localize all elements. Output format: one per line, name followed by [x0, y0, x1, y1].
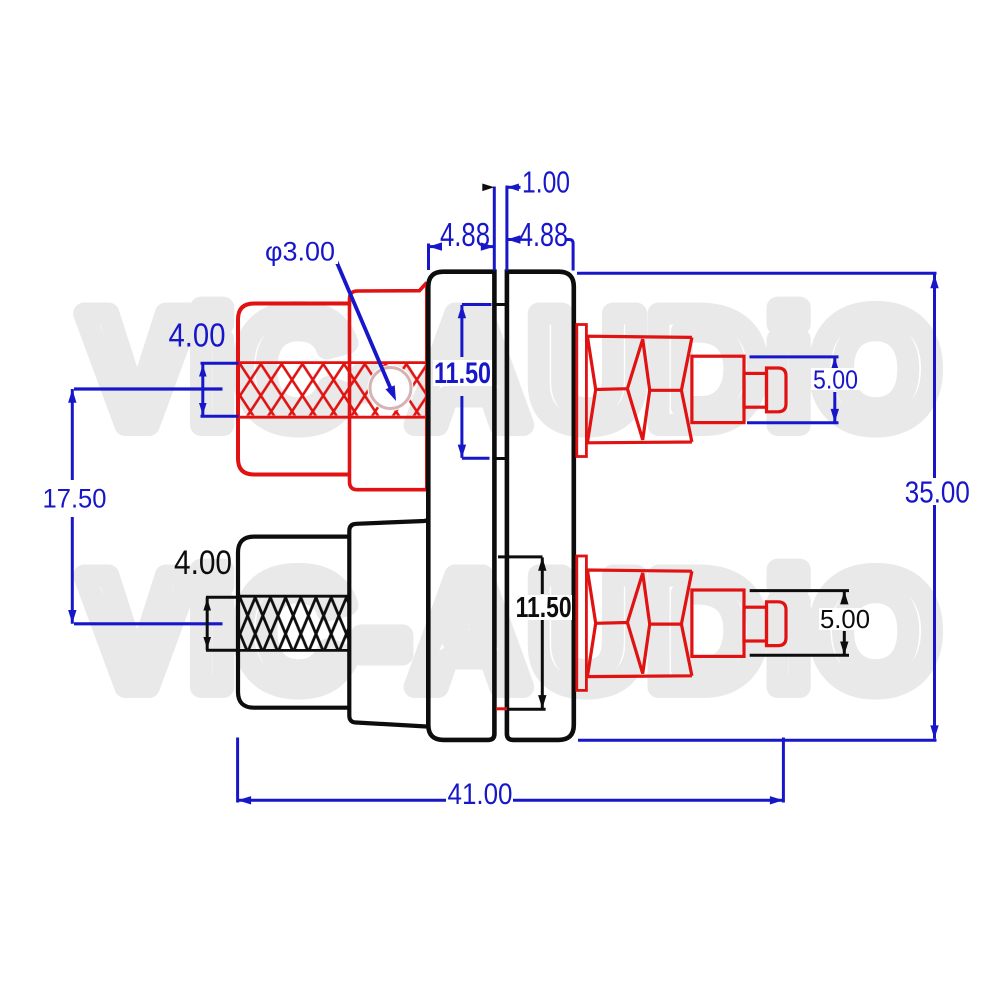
dim 11.50 top dim line — [460, 305, 463, 357]
dim 4.00 top ext lines — [201, 362, 239, 365]
stud shaft cylinder — [692, 356, 744, 422]
svg-text:11.50: 11.50 — [434, 357, 491, 390]
dim 35.00 top ext line — [577, 272, 937, 275]
red stud edge in plate gap — [496, 707, 507, 710]
dim 11.50 bottom dim line — [541, 557, 544, 594]
stud pin — [744, 607, 767, 641]
plate hole edge top lower — [494, 457, 508, 460]
stud tip — [767, 368, 787, 412]
stud washer — [577, 325, 587, 457]
dim 11.50 top ext lines — [462, 303, 492, 306]
stud pin — [744, 373, 767, 407]
stud shaft cylinder — [692, 590, 744, 656]
dim 17.50 dim line — [71, 389, 74, 480]
dim 1.00 ext line left — [493, 187, 496, 271]
dim 5.00 bottom ext lines — [750, 589, 849, 592]
dim 5.00 top label — [811, 368, 861, 390]
dim 4.88 right dim line — [507, 238, 519, 241]
dim 5.00 top dim line — [833, 357, 836, 366]
dim 4.00 top dim line — [201, 363, 204, 416]
dim 41.00 dim line — [238, 799, 446, 802]
plate hole edge top upper — [493, 303, 507, 306]
svg-text:5.00: 5.00 — [813, 365, 858, 395]
red connector shoulder — [350, 283, 427, 490]
red knurled band — [239, 364, 426, 416]
svg-text:4.88: 4.88 — [440, 216, 490, 253]
dim 35.00 bottom ext line — [578, 739, 937, 742]
dim 35.00 dim line — [933, 275, 936, 479]
stud thread — [587, 336, 692, 443]
dim 11.50 top label — [433, 360, 492, 386]
dim 4.00 bottom ext lines — [206, 596, 239, 599]
dim 41.00 left ext line — [236, 738, 239, 803]
black knurled band — [240, 598, 349, 650]
svg-text:35.00: 35.00 — [905, 475, 970, 510]
dim 5.00 top ext lines — [750, 355, 839, 358]
svg-text:41.00: 41.00 — [448, 778, 513, 811]
dim phi3.00 label — [262, 238, 338, 264]
dim 11.50 bottom label — [514, 595, 572, 620]
dim 35.00 label — [903, 479, 972, 505]
dim 1.00 black arrow — [482, 184, 494, 192]
mounting plate left — [428, 272, 494, 740]
dim 5.00 bottom dim line — [843, 591, 846, 604]
black connector cap — [238, 537, 351, 708]
svg-text:4.88: 4.88 — [519, 216, 568, 253]
mounting plate right — [507, 272, 574, 740]
red connector cap — [238, 304, 351, 475]
centerline top connector — [74, 387, 223, 390]
svg-text:5.00: 5.00 — [820, 604, 870, 634]
svg-text:1.00: 1.00 — [522, 165, 570, 200]
svg-text:11.50: 11.50 — [516, 592, 572, 624]
stud tip — [767, 602, 787, 646]
svg-text:4.00: 4.00 — [174, 544, 232, 582]
stud thread — [587, 570, 692, 677]
svg-text:17.50: 17.50 — [43, 484, 107, 514]
centerline bottom connector — [74, 622, 223, 625]
stud washer — [577, 556, 587, 690]
dim 1.00 blue arrow — [507, 184, 519, 192]
svg-text:4.00: 4.00 — [169, 317, 226, 354]
hole phi 3.00 — [368, 365, 414, 411]
dim 4.88 left dim line — [429, 245, 442, 248]
dim 5.00 bottom label — [819, 608, 872, 630]
dim 4.00 bottom dim line — [206, 597, 209, 650]
dim 1.00 ext line right — [505, 186, 508, 271]
svg-text:φ3.00: φ3.00 — [265, 237, 335, 267]
dim 4.88 left ext line — [427, 244, 430, 271]
black connector shoulder — [349, 521, 427, 727]
dim phi3.00 leader — [336, 261, 393, 395]
dim 11.50 bottom ext lines — [498, 555, 543, 558]
dim 17.50 label — [41, 487, 109, 511]
dim 41.00 right ext line — [782, 738, 785, 803]
